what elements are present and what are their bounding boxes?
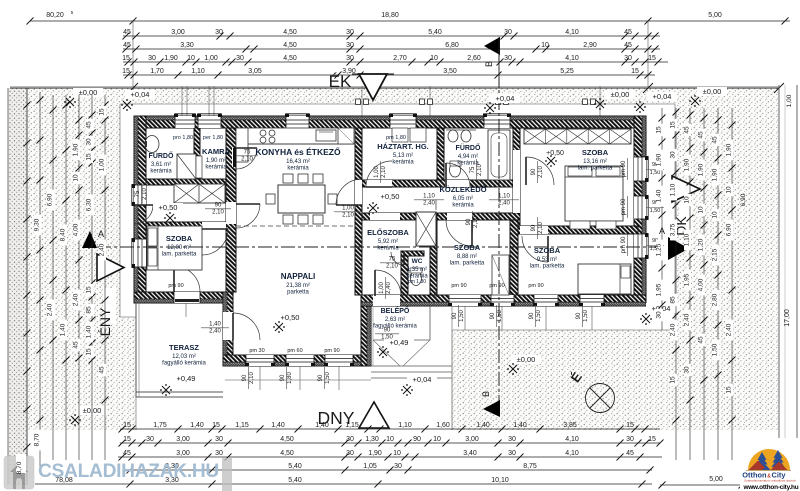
svg-text:A: A [98,229,104,239]
svg-text:2,10: 2,10 [249,372,255,384]
svg-text:30: 30 [236,55,244,62]
svg-text:pm 90: pm 90 [621,198,627,215]
svg-text:90: 90 [280,374,286,381]
svg-text:2,10: 2,10 [381,166,387,178]
svg-text:3,40: 3,40 [463,450,477,457]
svg-text:SZOBA: SZOBA [166,234,193,243]
svg-text:fagyálló kerámia: fagyálló kerámia [162,361,206,367]
svg-text:30: 30 [215,450,223,457]
svg-text:1,75: 1,75 [153,422,167,429]
svg-text:6,90: 6,90 [740,193,747,206]
svg-text:8,70: 8,70 [34,433,41,446]
svg-text:2,40: 2,40 [209,329,221,335]
svg-text:1,00: 1,00 [374,166,380,178]
svg-text:30: 30 [670,151,677,159]
svg-text:13,16 m²: 13,16 m² [583,159,607,165]
svg-text:75: 75 [389,257,396,263]
svg-text:pm 90: pm 90 [324,348,339,354]
svg-text:1,10: 1,10 [191,68,205,75]
svg-text:3,61 m²: 3,61 m² [151,162,171,168]
svg-text:2,10: 2,10 [386,264,398,270]
svg-text:45: 45 [123,29,131,36]
svg-text:kerámia: kerámia [452,203,474,209]
svg-text:3,05: 3,05 [248,68,262,75]
svg-text:75: 75 [470,166,476,173]
svg-text:kerámia: kerámia [287,166,309,172]
svg-text:15: 15 [86,348,93,356]
svg-text:45: 45 [684,126,691,134]
svg-text:30: 30 [656,311,663,319]
svg-text:2,40: 2,40 [423,201,435,207]
svg-text:+0,50: +0,50 [546,150,564,157]
svg-text:4,10: 4,10 [565,436,579,443]
svg-text:+0,50: +0,50 [159,203,178,212]
svg-text:45: 45 [624,29,632,36]
svg-text:1,50: 1,50 [497,310,503,322]
svg-text:lam. parketta: lam. parketta [578,166,613,172]
svg-text:45: 45 [99,366,106,374]
svg-text:1,70: 1,70 [150,68,164,75]
svg-text:5,40: 5,40 [288,477,302,484]
svg-text:30: 30 [148,55,156,62]
svg-text:3,50: 3,50 [443,68,457,75]
svg-text:1,35 m²: 1,35 m² [407,267,427,273]
svg-text:3,85: 3,85 [563,422,577,429]
svg-text:1,95: 1,95 [656,283,663,296]
svg-text:1,40: 1,40 [513,422,527,429]
svg-text:1,10: 1,10 [498,194,510,200]
svg-text:45: 45 [698,336,705,344]
svg-text:90: 90 [529,312,535,319]
svg-text:1,80: 1,80 [287,372,293,384]
svg-text:85: 85 [86,306,93,314]
svg-text:8,40: 8,40 [60,228,67,241]
svg-text:5,40: 5,40 [428,29,442,36]
svg-text:10: 10 [712,211,719,219]
svg-text:45: 45 [123,450,131,457]
svg-text:www.otthon-city.hu: www.otthon-city.hu [743,484,799,491]
svg-text:4,50: 4,50 [280,450,294,457]
svg-text:15: 15 [99,108,106,116]
svg-text:10: 10 [726,186,733,194]
svg-text:1,60: 1,60 [436,422,450,429]
svg-text:4,50: 4,50 [283,42,297,49]
svg-text:+0,50: +0,50 [381,192,400,201]
svg-text:90: 90 [452,312,458,319]
svg-text:1,15: 1,15 [235,422,249,429]
svg-text:12,00 m²: 12,00 m² [167,245,191,251]
svg-text:10: 10 [433,436,441,443]
svg-text:45: 45 [123,42,131,49]
svg-text:85: 85 [670,296,677,304]
svg-text:10: 10 [430,55,438,62]
svg-text:parketta: parketta [287,290,309,296]
svg-text:fagyálló kerámia: fagyálló kerámia [373,324,417,330]
svg-text:80,20: 80,20 [46,12,64,19]
svg-text:1,40: 1,40 [315,422,329,429]
svg-text:3,30: 3,30 [180,42,194,49]
svg-text:4,94 m²: 4,94 m² [458,154,478,160]
svg-text:WC: WC [412,258,423,265]
svg-text:+0,04: +0,04 [653,92,672,101]
svg-text:4,00: 4,00 [73,223,80,236]
svg-text:±0,00: ±0,00 [703,87,722,96]
svg-text:±0,00: ±0,00 [611,90,630,99]
svg-text:30: 30 [86,138,93,146]
svg-text:1,40: 1,40 [476,422,490,429]
svg-text:1,50: 1,50 [712,343,719,356]
svg-text:10: 10 [386,436,394,443]
svg-text:8,75: 8,75 [523,463,537,470]
svg-text:pro 1,80: pro 1,80 [173,135,193,141]
svg-text:1,40: 1,40 [209,322,221,328]
svg-text:2,63 m²: 2,63 m² [385,317,405,323]
svg-text:per 1,80: per 1,80 [203,135,223,141]
svg-text:2,10: 2,10 [241,157,253,163]
svg-text:BELÉPŐ: BELÉPŐ [381,306,410,315]
svg-text:1,20: 1,20 [698,238,705,251]
svg-text:15: 15 [670,121,677,129]
svg-text:15: 15 [631,68,639,75]
svg-text:15: 15 [626,422,634,429]
svg-text:2,10: 2,10 [473,216,479,228]
svg-text:10: 10 [541,42,549,49]
svg-text:1,50: 1,50 [536,310,542,322]
svg-text:1,90: 1,90 [684,158,691,171]
svg-text:15: 15 [648,55,656,62]
svg-text:30: 30 [626,436,634,443]
svg-text:KÖZLEKEDŐ: KÖZLEKEDŐ [439,185,486,194]
svg-text:5,25: 5,25 [560,68,574,75]
svg-text:KAMRA: KAMRA [202,147,230,156]
svg-text:30: 30 [684,366,691,374]
svg-text:8,88 m²: 8,88 m² [457,254,477,260]
svg-text:90: 90 [531,224,537,231]
svg-text:15: 15 [123,422,131,429]
svg-text:KONYHA és ÉTKEZŐ: KONYHA és ÉTKEZŐ [255,146,341,157]
svg-text:CSALADIHAZAK.HU: CSALADIHAZAK.HU [38,461,219,482]
svg-text:15: 15 [122,55,130,62]
svg-text:1,90: 1,90 [712,168,719,181]
svg-text:1,90: 1,90 [698,163,705,176]
svg-text:2,10: 2,10 [538,222,544,234]
svg-text:1,40: 1,40 [271,422,285,429]
svg-text:10: 10 [698,206,705,214]
svg-text:1,40: 1,40 [656,189,663,202]
svg-text:10: 10 [393,450,401,457]
svg-text:3,00: 3,00 [176,450,190,457]
svg-text:90: 90 [215,203,222,209]
svg-text:10: 10 [187,55,195,62]
svg-text:45: 45 [712,136,719,144]
svg-text:30: 30 [346,450,354,457]
svg-text:30: 30 [504,29,512,36]
svg-text:45: 45 [626,450,634,457]
svg-text:30: 30 [624,55,632,62]
svg-text:B: B [484,61,494,67]
svg-text:ELŐSZOBA: ELŐSZOBA [367,228,409,237]
svg-text:1,10: 1,10 [423,194,435,200]
svg-text:90: 90 [576,312,582,319]
svg-text:30: 30 [146,436,154,443]
svg-text:90: 90 [531,168,537,175]
svg-text:1,00: 1,00 [204,55,218,62]
svg-text:5,92 m²: 5,92 m² [378,239,398,245]
svg-text:kerámia: kerámia [205,165,227,171]
svg-text:90: 90 [490,312,496,319]
svg-text:45: 45 [624,42,632,49]
svg-text:pm 90: pm 90 [451,283,466,289]
svg-text:5,00: 5,00 [708,12,722,19]
svg-text:FÜRDŐ: FÜRDŐ [149,151,174,160]
svg-text:45: 45 [86,121,93,129]
svg-text:1,25: 1,25 [656,243,663,256]
svg-text:pm 90: pm 90 [168,283,183,289]
svg-text:1,30: 1,30 [365,436,379,443]
svg-text:2,10: 2,10 [342,213,354,219]
svg-text:1,15: 1,15 [345,422,359,429]
svg-text:1,90: 1,90 [656,153,663,166]
svg-text:pm 90: pm 90 [621,160,627,177]
svg-text:2,10: 2,10 [538,166,544,178]
svg-text:TERASZ: TERASZ [169,343,199,352]
svg-text:1,00: 1,00 [99,158,106,171]
svg-text:15: 15 [86,153,93,161]
svg-text:15: 15 [212,422,220,429]
svg-text:pm 90: pm 90 [621,236,627,253]
svg-text:1,90: 1,90 [164,55,178,62]
svg-text:+0,04: +0,04 [496,94,515,103]
svg-text:5,13 m²: 5,13 m² [393,153,413,159]
svg-text:15: 15 [86,286,93,294]
svg-text:2,40: 2,40 [498,201,510,207]
svg-text:30: 30 [346,436,354,443]
svg-text:8,70: 8,70 [16,461,23,474]
svg-text:2,80: 2,80 [712,293,719,306]
svg-text:10,10: 10,10 [491,477,509,484]
svg-text:kerámia: kerámia [392,160,414,166]
svg-text:lam. parketta: lam. parketta [530,264,565,270]
svg-text:3,00: 3,00 [465,436,479,443]
svg-text:30: 30 [215,436,223,443]
svg-text:4,10: 4,10 [565,29,579,36]
svg-text:1,90: 1,90 [726,143,733,156]
svg-text:2,60: 2,60 [467,55,481,62]
svg-text:90: 90 [466,218,472,225]
svg-text:1,50: 1,50 [459,310,465,322]
svg-text:30: 30 [346,42,354,49]
svg-text:17,00: 17,00 [784,309,791,327]
svg-text:+0,04: +0,04 [413,375,432,384]
svg-text:+0,04: +0,04 [131,90,150,99]
svg-text:ÉK: ÉK [329,72,352,91]
svg-text:30: 30 [504,55,512,62]
svg-text:pm 60: pm 60 [287,348,302,354]
svg-text:1,50: 1,50 [325,372,331,384]
svg-text:75: 75 [135,190,141,197]
svg-text:2,40: 2,40 [684,313,691,326]
svg-text:1,40: 1,40 [60,323,67,336]
svg-text:4,10: 4,10 [565,450,579,457]
svg-text:±0,00: ±0,00 [79,88,98,97]
svg-text:1,90: 1,90 [73,143,80,156]
svg-text:Szabadalmaztatott csaladihaz t: Szabadalmaztatott csaladihaz tipusok [744,479,796,483]
svg-text:15: 15 [670,376,677,384]
svg-text:90: 90 [384,328,391,334]
svg-text:1,00: 1,00 [342,206,354,212]
svg-text:5,00: 5,00 [709,476,723,483]
svg-text:1,50: 1,50 [583,310,589,322]
svg-text:21,38 m²: 21,38 m² [286,283,310,289]
svg-text:4,00: 4,00 [698,278,705,291]
svg-text:2,40: 2,40 [99,243,106,256]
svg-text:9,30: 9,30 [34,218,41,231]
svg-text:1,40: 1,40 [190,422,204,429]
svg-text:kerámia: kerámia [150,169,172,175]
svg-text:1,95: 1,95 [684,273,691,286]
svg-text:75: 75 [244,150,251,156]
svg-text:1,00: 1,00 [379,282,385,294]
svg-text:1,50: 1,50 [650,208,661,214]
svg-text:lam. parketta: lam. parketta [450,261,485,267]
svg-text:2,40: 2,40 [670,323,677,336]
svg-text:30: 30 [508,436,516,443]
svg-text:1,90 m²: 1,90 m² [206,158,226,164]
svg-text:6,05 m²: 6,05 m² [453,196,473,202]
svg-text:pm 1,80: pm 1,80 [386,135,406,141]
svg-text:4,50: 4,50 [283,29,297,36]
svg-text:FÜRDŐ: FÜRDŐ [456,143,481,152]
svg-text:30: 30 [394,463,402,470]
svg-text:1,90: 1,90 [368,450,382,457]
svg-text:pm 90: pm 90 [489,283,504,289]
svg-text:3,00: 3,00 [171,29,185,36]
svg-text:SZOBA: SZOBA [582,148,609,157]
svg-text:30: 30 [346,29,354,36]
svg-text:1,50: 1,50 [650,170,661,176]
svg-text:2,70: 2,70 [393,55,407,62]
svg-text:30: 30 [215,29,223,36]
svg-text:18,80: 18,80 [381,12,399,19]
svg-text:2,10: 2,10 [142,188,148,200]
svg-text:4,50: 4,50 [283,55,297,62]
svg-text:16,43 m²: 16,43 m² [286,159,310,165]
svg-text:lam. parketta: lam. parketta [162,252,197,258]
svg-text:90: 90 [413,436,421,443]
svg-text:15: 15 [648,436,656,443]
svg-text:6,90: 6,90 [726,223,733,236]
svg-text:12,03 m²: 12,03 m² [172,354,196,360]
svg-text:10: 10 [73,174,80,182]
svg-text:2,40: 2,40 [726,323,733,336]
svg-text:90: 90 [242,374,248,381]
svg-text:1,10: 1,10 [398,422,412,429]
svg-text:90: 90 [318,374,324,381]
svg-text:15: 15 [123,436,131,443]
svg-text:NAPPALI: NAPPALI [281,272,316,281]
svg-text:kerámia: kerámia [377,246,399,252]
svg-text:30: 30 [346,55,354,62]
svg-text:2,40: 2,40 [73,293,80,306]
svg-text:9,53 m²: 9,53 m² [537,257,557,263]
svg-text:SZOBA: SZOBA [454,243,481,252]
svg-text:+0,49: +0,49 [177,374,196,383]
svg-text:3,75: 3,75 [670,223,677,236]
svg-text:pm 90: pm 90 [528,283,543,289]
svg-text:5,40: 5,40 [288,463,302,470]
svg-text:HÁZTART. HG.: HÁZTART. HG. [377,142,429,151]
svg-text:15: 15 [122,68,130,75]
svg-text:pm 1,80: pm 1,80 [408,279,426,285]
svg-text:1,05: 1,05 [363,463,377,470]
svg-text:1,50: 1,50 [381,335,393,341]
svg-text:1,10: 1,10 [684,233,691,246]
svg-text:SZOBA: SZOBA [534,246,561,255]
svg-text:1,00: 1,00 [786,94,793,107]
svg-text:2,40: 2,40 [386,282,392,294]
svg-text:+0,50: +0,50 [281,313,300,322]
svg-text:pm 30: pm 30 [249,348,264,354]
svg-text:4,50: 4,50 [280,436,294,443]
svg-text:45: 45 [698,131,705,139]
svg-text:6,30: 6,30 [86,198,93,211]
svg-text:30: 30 [508,450,516,457]
svg-text:15: 15 [656,126,663,134]
svg-text:±0,00: ±0,00 [517,355,536,364]
svg-text:2,10: 2,10 [212,210,224,216]
svg-text:2,15: 2,15 [712,248,719,261]
svg-text:1,40: 1,40 [86,325,93,338]
svg-text:3,00: 3,00 [176,436,190,443]
svg-text:B: B [481,391,491,397]
svg-text:15: 15 [726,386,733,394]
svg-text:4,10: 4,10 [565,55,579,62]
svg-text:6,90: 6,90 [47,193,54,206]
svg-text:2,10: 2,10 [477,164,483,176]
svg-text:1,10: 1,10 [670,183,677,196]
svg-text:2,40: 2,40 [47,303,54,316]
svg-text:10: 10 [684,196,691,204]
svg-text:2,90: 2,90 [583,42,597,49]
svg-text:6,80: 6,80 [445,42,459,49]
svg-text:45: 45 [73,341,80,349]
